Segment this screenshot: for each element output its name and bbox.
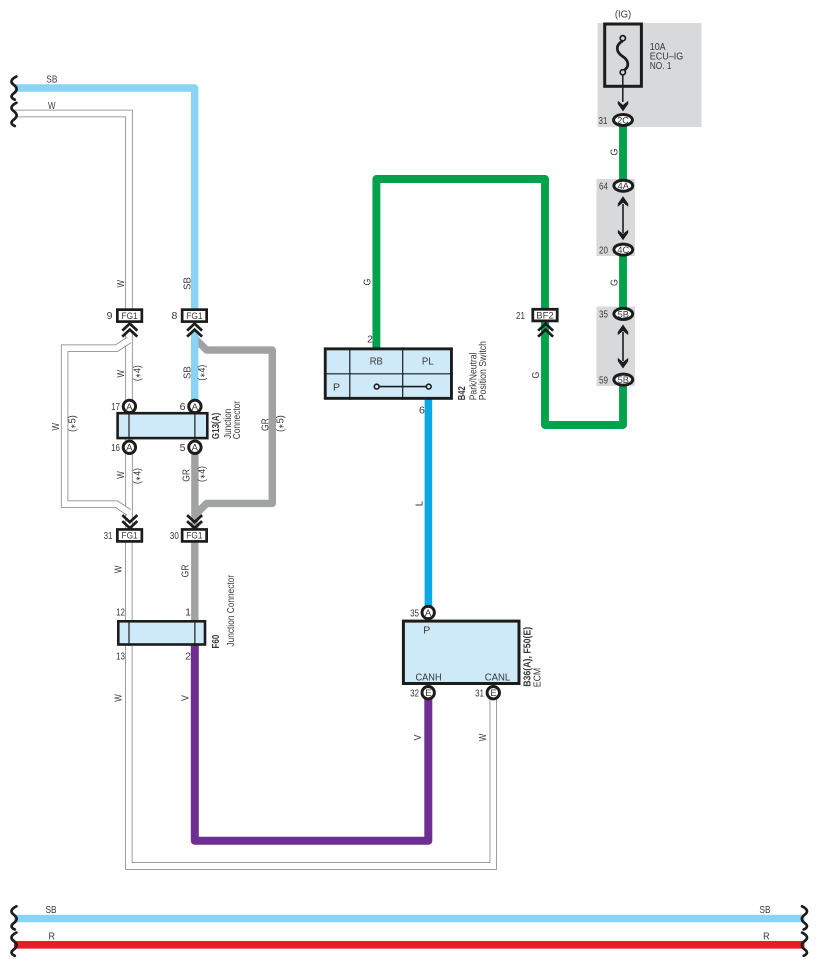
chevron pair below FG1-9 (pointing up) [122, 324, 137, 337]
break symbol: W top left [11, 103, 16, 126]
chevron pair above FG1-30 (pointing down) [187, 515, 202, 528]
designator F60 [210, 634, 222, 648]
svg-text:(∗5): (∗5) [67, 415, 79, 432]
label SB (feed above FG1-8) [182, 277, 194, 290]
label 31 [104, 530, 113, 542]
svg-text:P: P [333, 382, 340, 394]
wire G: fuse 2C to connector 4A (green) [619, 126, 627, 184]
label SB bottom right [759, 904, 770, 916]
wire W: FG1 pin 31 to F60 pin 12 [125, 541, 132, 622]
switch B42 Park/Neutral Position Switch [324, 347, 453, 399]
svg-text:V: V [412, 735, 424, 741]
svg-text:W: W [477, 734, 489, 742]
svg-text:ECM: ECM [531, 668, 543, 687]
label GR (*5) right rail [260, 415, 287, 432]
label W top [48, 100, 56, 112]
svg-text:FG1: FG1 [122, 531, 138, 542]
svg-text:12: 12 [116, 607, 125, 619]
label V (below ECM pin 32) [412, 735, 424, 741]
shaded block: ignition fuse area [598, 23, 702, 127]
svg-text:SB: SB [46, 73, 57, 85]
pin circle A 17 [123, 400, 135, 413]
designator B36(A), F50(E) [522, 627, 534, 687]
svg-text:21: 21 [516, 310, 525, 322]
label W (*4) below G13(A) [115, 468, 144, 484]
svg-text:Position Switch: Position Switch [477, 341, 489, 400]
svg-text:35: 35 [599, 309, 608, 321]
label V (F60 to ECM run) [179, 695, 191, 701]
wire SB: bottom rail (light blue) [14, 915, 805, 922]
wire G: connector 4C to 5B (green) [619, 255, 627, 311]
wire W (*5): bypass rail around G13(A) (white, outlined) [65, 340, 129, 512]
svg-text:GR: GR [181, 469, 193, 482]
svg-text:W: W [113, 694, 125, 702]
svg-text:4A: 4A [618, 181, 630, 191]
svg-text:SB: SB [46, 904, 57, 916]
pin circle A 16 [123, 441, 135, 454]
name ECM [531, 668, 543, 687]
label 9 [107, 310, 113, 322]
label G (wire 4C-5B) [609, 279, 621, 286]
wire SB: top feed to FG1 pin 8 (light blue) [15, 88, 195, 310]
junction arrow pair 4A-4C [618, 196, 628, 240]
svg-text:13: 13 [116, 651, 125, 663]
svg-text:W: W [115, 280, 127, 288]
label 59 [599, 374, 608, 386]
chevron pair below FG1-8 (pointing up) [187, 324, 202, 337]
svg-text:FG1: FG1 [186, 531, 202, 542]
svg-text:(∗4): (∗4) [132, 365, 144, 381]
junction connector G13(A) [118, 412, 208, 440]
break symbol: SB top left [11, 77, 16, 100]
label W (*4) above G13(A) [115, 365, 144, 381]
svg-text:A: A [192, 402, 199, 413]
junction arrow pair 5B-5B [618, 325, 628, 369]
svg-text:CANH: CANH [416, 671, 442, 683]
designator G13(A) [210, 413, 222, 440]
svg-text:6: 6 [419, 405, 425, 417]
svg-text:59: 59 [599, 374, 608, 386]
label R bottom right [763, 930, 770, 942]
connector FG1 pin 9 [117, 310, 142, 322]
label G (wire 2C-4A) [609, 149, 621, 156]
svg-text:SB: SB [182, 277, 194, 290]
svg-text:W: W [113, 566, 125, 574]
svg-text:SB: SB [759, 904, 770, 916]
label 20 [599, 244, 608, 256]
label W (*5) left rail [50, 415, 78, 432]
label 17 [111, 401, 120, 413]
wire SB (*4): FG1 pin 8 to G13(A) pin 6 [191, 331, 198, 402]
label GR (*4) below G13(A) [181, 466, 208, 482]
label 10A ECU-IG NO. 1 [650, 41, 683, 72]
label pin 12 of F60 [116, 607, 125, 619]
label 8 [171, 310, 177, 322]
wire W: F60 pin 13 to ECM pin 31 CANL [129, 644, 494, 866]
label pin 1 of F60 [185, 607, 191, 619]
chevron pair above FG1-31 (pointing down) [122, 515, 137, 528]
label pin 2 of F60 [185, 651, 191, 663]
svg-text:R: R [49, 930, 56, 942]
wire L: B42 pin 6 to ECM pin 35 (blue) [425, 398, 433, 607]
fuse F: 10A ECU-IG NO.1 [605, 24, 642, 102]
svg-text:B42: B42 [456, 386, 468, 400]
label (IG) [615, 8, 631, 20]
svg-text:W: W [115, 370, 127, 378]
svg-text:16: 16 [111, 442, 120, 454]
svg-text:GR: GR [260, 418, 272, 431]
svg-text:FG1: FG1 [186, 311, 202, 322]
arrowhead into 2C [618, 101, 628, 112]
connector FG1 pin 30 [182, 529, 207, 541]
svg-text:31: 31 [104, 530, 113, 542]
svg-text:BF2: BF2 [536, 311, 553, 322]
break symbol: SB bottom right [802, 906, 807, 929]
connector oval 4C pin 20 [614, 244, 633, 255]
label pin 13 of F60 [116, 651, 125, 663]
svg-text:FG1: FG1 [122, 311, 138, 322]
svg-text:G: G [609, 149, 621, 156]
wire GR: FG1 pin 30 to F60 pin 1 [191, 541, 198, 622]
svg-text:Junction Connector: Junction Connector [225, 575, 237, 647]
svg-text:32: 32 [410, 688, 419, 700]
label G (left green riser) [361, 279, 373, 286]
name Park/Neutral Position Switch [467, 341, 489, 400]
pin circle A 5 [189, 441, 201, 454]
svg-text:A: A [425, 608, 432, 619]
label SB top [46, 73, 57, 85]
wire G: B42 pin 2 up, across, down through BF2, to 5B pin 59 (green) [376, 179, 623, 425]
svg-text:P: P [423, 625, 430, 637]
svg-text:E: E [425, 688, 431, 699]
connector oval 5B pin 59 [614, 374, 633, 385]
svg-text:6: 6 [180, 401, 186, 413]
svg-text:NO. 1: NO. 1 [650, 60, 672, 72]
label 30 [170, 530, 179, 542]
svg-text:G13(A): G13(A) [210, 413, 222, 440]
svg-text:G: G [361, 279, 373, 286]
ECM B36(A), F50(E) [403, 621, 519, 683]
svg-text:F60: F60 [210, 634, 222, 648]
label pin 2 of B42 [367, 333, 373, 345]
label W (F60 to ECM run) [113, 694, 125, 702]
label 16 [111, 442, 120, 454]
svg-text:RB: RB [370, 356, 383, 368]
label 5 [180, 442, 186, 454]
svg-text:(∗4): (∗4) [132, 468, 144, 484]
svg-text:5B: 5B [618, 309, 629, 319]
chevron pair below BF2 (pointing up) [538, 324, 553, 337]
pin circle E 31 (ECM CANL) [487, 687, 499, 700]
svg-text:(∗5): (∗5) [274, 415, 286, 432]
name Junction Connector (G13) [222, 401, 243, 440]
svg-text:SB: SB [182, 366, 194, 379]
junction connector F60 [118, 620, 205, 646]
svg-text:8: 8 [171, 310, 177, 322]
shaded block: connector 5B [597, 307, 636, 387]
svg-text:31: 31 [599, 115, 608, 127]
svg-text:35: 35 [410, 607, 419, 619]
svg-text:W: W [115, 471, 127, 479]
break symbol: R bottom right [802, 933, 807, 956]
label 31 [475, 688, 484, 700]
label R bottom left [49, 930, 56, 942]
svg-text:G: G [609, 279, 621, 286]
svg-text:(∗4): (∗4) [196, 466, 208, 482]
svg-text:1: 1 [185, 607, 191, 619]
svg-text:G: G [530, 372, 542, 379]
designator B42 [456, 386, 468, 400]
svg-text:2: 2 [367, 333, 373, 345]
label W (FG1-31 to F60) [113, 566, 125, 574]
svg-text:64: 64 [599, 181, 608, 193]
wire V: F60 pin 2 to ECM pin 32 CANH (violet) [195, 644, 428, 841]
label 6 [180, 401, 186, 413]
pin circle A 35 (ECM) [422, 606, 434, 619]
svg-text:4C: 4C [617, 245, 629, 255]
svg-text:PL: PL [422, 356, 434, 368]
label GR (FG1-30 to F60) [179, 564, 191, 577]
svg-text:W: W [50, 423, 62, 431]
svg-text:R: R [763, 930, 770, 942]
svg-text:30: 30 [170, 530, 179, 542]
svg-text:5B: 5B [618, 375, 629, 385]
connector FG1 pin 8 [182, 310, 207, 322]
label 21 [516, 310, 525, 322]
pin circle E 32 (ECM CANH) [422, 687, 434, 700]
name Junction Connector (F60) [225, 575, 237, 647]
connector oval 4A pin 64 [614, 180, 633, 191]
svg-text:5: 5 [180, 442, 186, 454]
svg-text:V: V [179, 695, 191, 701]
label L (wire B42-ECM) [413, 501, 425, 507]
svg-text:(IG): (IG) [615, 8, 631, 20]
shaded block: connector 4A/4C [597, 179, 636, 256]
svg-text:2: 2 [185, 651, 191, 663]
svg-text:GR: GR [179, 564, 191, 577]
svg-text:A: A [126, 402, 133, 413]
label 35 [599, 309, 608, 321]
svg-text:Connector: Connector [231, 401, 243, 440]
label W (feed above FG1-9) [115, 280, 127, 288]
svg-text:L: L [413, 501, 425, 507]
label 35 [410, 607, 419, 619]
svg-text:A: A [192, 443, 199, 454]
connector BF2 pin 21 [533, 309, 557, 321]
label W (below ECM pin 31) [477, 734, 489, 742]
svg-text:20: 20 [599, 244, 608, 256]
wire GR (*4): G13(A) pin 5 to FG1 pin 30 [191, 451, 198, 530]
svg-text:9: 9 [107, 310, 113, 322]
label G (right green riser) [530, 372, 542, 379]
svg-text:A: A [126, 443, 133, 454]
connector FG1 pin 31 [117, 529, 142, 541]
wire R: bottom rail (red) [14, 941, 805, 949]
svg-text:W: W [48, 100, 56, 112]
wire W: top feed to FG1 pin 9 (white, outlined) [15, 114, 129, 311]
break symbol: SB bottom left [11, 906, 16, 929]
label 32 [410, 688, 419, 700]
svg-text:31: 31 [475, 688, 484, 700]
svg-text:CANL: CANL [485, 671, 511, 683]
label pin 6 of B42 [419, 405, 425, 417]
svg-text:E: E [490, 688, 496, 699]
svg-text:(∗4): (∗4) [196, 365, 208, 381]
connector oval 2C pin 31 [614, 115, 633, 126]
svg-text:17: 17 [111, 401, 120, 413]
svg-text:2C: 2C [617, 115, 629, 125]
label 64 [599, 181, 608, 193]
label SB bottom left [46, 904, 57, 916]
label 31 (pin of 2C) [599, 115, 608, 127]
wire W (*4): FG1 pin 9 through G13(A) pins 17/16 to FG1 pin 31 [125, 333, 132, 530]
connector oval 5B pin 35 [614, 308, 633, 319]
label SB (*4) above G13(A) [182, 365, 208, 381]
pin circle A 6 [189, 400, 201, 413]
wire GR (*5): bypass rail around G13(A) (gray) [195, 339, 272, 516]
break symbol: R bottom left [11, 933, 16, 956]
